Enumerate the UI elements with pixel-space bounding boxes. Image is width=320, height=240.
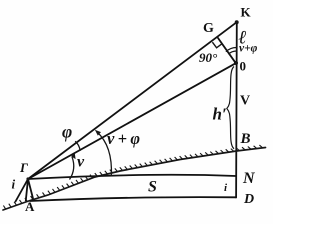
svg-text:ν+φ: ν+φ bbox=[239, 43, 258, 55]
svg-text:i: i bbox=[224, 182, 228, 194]
svg-text:D: D bbox=[243, 192, 254, 207]
double angle arc nu+phi at O bbox=[228, 51, 237, 54]
svg-text:V: V bbox=[240, 94, 250, 109]
svg-text:h′: h′ bbox=[213, 105, 227, 124]
wire horizontal line Gamma-N (distance S) bbox=[28, 175, 236, 179]
angle arc phi between Gamma-O and Gamma-K bbox=[75, 141, 80, 151]
tripod leg right at Gamma bbox=[28, 179, 33, 199]
svg-text:B: B bbox=[240, 131, 251, 147]
tripod leg middle at Gamma bbox=[26, 179, 28, 201]
right-angle square at G bbox=[212, 42, 222, 48]
tripod leg left at Gamma bbox=[16, 179, 29, 202]
terrain ground line with hatching bbox=[3, 148, 266, 211]
arrowhead of nu arc bbox=[72, 153, 75, 158]
node K dot bbox=[235, 20, 239, 24]
wire bottom line A-D bbox=[30, 197, 236, 201]
wire vertical staff K-O-N-D bbox=[235, 22, 238, 197]
svg-text:ν + φ: ν + φ bbox=[107, 129, 140, 148]
terrain hatch ticks bbox=[3, 145, 262, 209]
angle arc nu with arrow bbox=[70, 157, 74, 180]
node Gamma dot bbox=[26, 177, 29, 180]
curly brace for h' bbox=[227, 67, 234, 149]
svg-text:N: N bbox=[242, 170, 256, 187]
svg-text:S: S bbox=[148, 179, 157, 196]
svg-text:i: i bbox=[12, 177, 16, 192]
angle arc nu+phi with arrow bbox=[97, 132, 112, 177]
svg-text:φ: φ bbox=[62, 122, 72, 142]
wire G-O perpendicular bbox=[218, 38, 236, 63]
svg-text:G: G bbox=[203, 21, 214, 36]
svg-text:K: K bbox=[241, 5, 252, 20]
wire Gamma-O sight line bbox=[28, 63, 236, 179]
svg-text:Г: Г bbox=[19, 160, 28, 175]
svg-text:0: 0 bbox=[240, 59, 247, 74]
svg-text:ν: ν bbox=[77, 154, 85, 171]
arrowhead of nu+phi arc bbox=[96, 131, 101, 135]
node O dot bbox=[234, 61, 238, 65]
svg-text:90°: 90° bbox=[199, 50, 218, 65]
wire Gamma-K sight line bbox=[28, 22, 237, 179]
svg-text:A: A bbox=[25, 199, 35, 214]
